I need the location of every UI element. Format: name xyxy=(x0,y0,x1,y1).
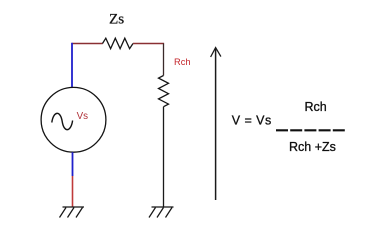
svg-text:Zs: Zs xyxy=(109,11,124,28)
source sine symbol xyxy=(52,113,73,129)
svg-text:V = Vs: V = Vs xyxy=(232,113,272,127)
wire left vertical blue (top) xyxy=(71,43,73,88)
source Vs circle xyxy=(41,87,106,152)
svg-text:Rch: Rch xyxy=(305,100,327,114)
arrow head xyxy=(211,48,221,57)
wire top-left horizontal (maroon) xyxy=(72,43,103,45)
wire top-right horizontal (maroon) xyxy=(133,43,164,45)
wire right vertical upper (dark) xyxy=(163,44,165,76)
wire right vertical lower (black) xyxy=(163,107,165,207)
svg-text:Rch: Rch xyxy=(174,57,191,67)
svg-text:Rch +Zs: Rch +Zs xyxy=(289,140,336,154)
wire left vertical red (to ground) xyxy=(72,176,74,207)
resistor Zs xyxy=(103,38,134,49)
resistor Rch xyxy=(159,76,169,107)
ground left xyxy=(60,207,85,218)
ground right xyxy=(149,207,174,218)
formula fraction bar (dashes) xyxy=(276,129,345,131)
arrow shaft xyxy=(215,49,217,201)
svg-text:Vs: Vs xyxy=(77,111,89,122)
wire left vertical blue (bottom) xyxy=(72,152,74,176)
